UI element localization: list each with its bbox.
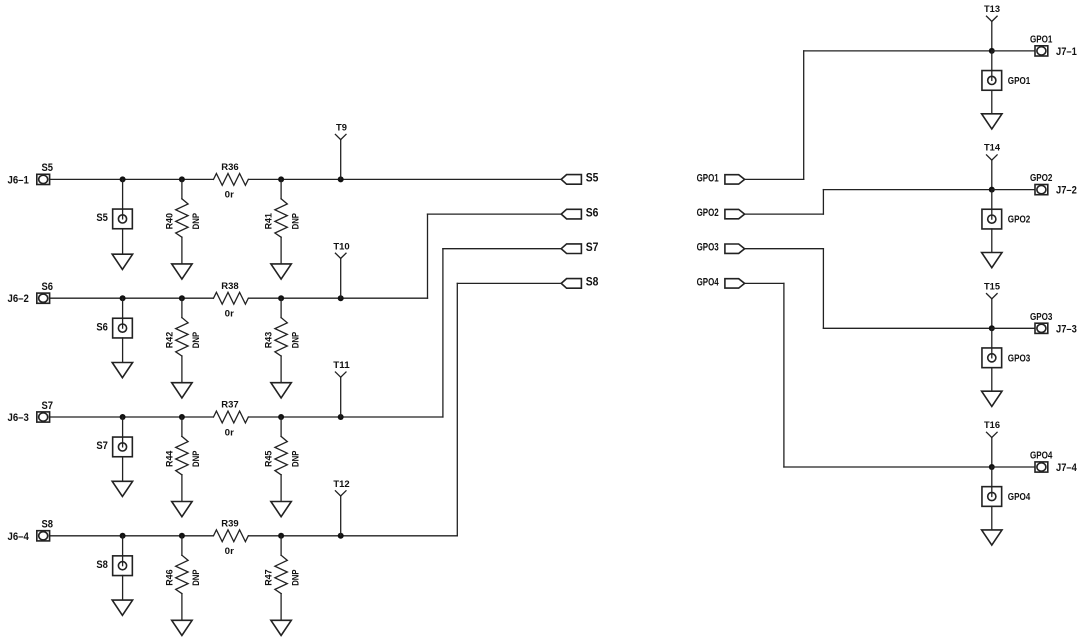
test point label GPO2 bbox=[1008, 215, 1031, 226]
junction node S7 at R45 tap bbox=[278, 414, 284, 420]
svg-text:J6–3: J6–3 bbox=[8, 412, 29, 424]
junction node S6 at T10 tap bbox=[338, 295, 344, 301]
connector J6–1 pin symbol bbox=[37, 174, 50, 184]
wire test point to ground bbox=[991, 368, 993, 392]
DNP label of R46 bbox=[191, 569, 202, 586]
test point label GPO3 bbox=[1008, 353, 1031, 364]
resistor R47 bbox=[275, 555, 287, 593]
junction node S7 at T11 tap bbox=[338, 414, 344, 420]
svg-text:GPO4: GPO4 bbox=[697, 276, 720, 288]
test pin label T13 bbox=[984, 4, 1000, 15]
test point GPO2 bbox=[982, 209, 1002, 229]
connector label J6–1 bbox=[8, 174, 29, 186]
off-page flag S6 bbox=[561, 209, 581, 219]
svg-text:R42: R42 bbox=[165, 332, 176, 348]
wire test point to ground bbox=[991, 90, 993, 114]
test point label S5 bbox=[96, 212, 108, 224]
test point label S6 bbox=[96, 321, 108, 333]
svg-text:J6–2: J6–2 bbox=[8, 293, 29, 305]
wire to test point bbox=[991, 467, 993, 497]
resistor R37 bbox=[214, 411, 249, 423]
wire R40 to ground bbox=[181, 237, 183, 264]
ground below test point GPO4 bbox=[982, 530, 1002, 545]
wire R42 to ground bbox=[181, 356, 183, 383]
resistor R41 bbox=[275, 199, 287, 237]
test pin label T11 bbox=[333, 360, 350, 371]
value label 0r of R38 bbox=[225, 308, 234, 319]
wire net S8 from J6–4 bbox=[50, 535, 214, 537]
test pin T9 bbox=[335, 134, 346, 139]
resistor R46 bbox=[176, 555, 188, 593]
svg-text:T16: T16 bbox=[984, 420, 1000, 431]
wire net S7 to off-page flag bbox=[443, 249, 561, 417]
test point label GPO4 bbox=[1008, 492, 1031, 503]
wire net GPO1 to J7–1 bbox=[745, 51, 992, 180]
resistor label R42 bbox=[165, 332, 176, 348]
resistor R43 bbox=[275, 318, 287, 356]
net label GPO2 at J7–2 bbox=[1030, 173, 1053, 184]
resistor R36 bbox=[214, 174, 249, 186]
svg-text:R46: R46 bbox=[165, 569, 176, 585]
ground below test point S5 bbox=[112, 254, 132, 269]
resistor label R39 bbox=[221, 518, 238, 529]
wire net S7 from J6–3 bbox=[50, 416, 214, 418]
DNP label of R41 bbox=[290, 213, 301, 230]
test pin label T14 bbox=[984, 143, 1001, 154]
junction node S6 at R42 tap bbox=[179, 295, 185, 301]
ground below R45 bbox=[271, 502, 291, 517]
svg-text:S7: S7 bbox=[586, 240, 599, 254]
value label 0r of R37 bbox=[225, 427, 234, 438]
junction node GPO1 bbox=[989, 48, 995, 54]
test pin T14 bbox=[987, 155, 998, 160]
svg-text:DNP: DNP bbox=[191, 213, 202, 230]
junction node S5 at R40 tap bbox=[179, 176, 185, 182]
ground below R41 bbox=[271, 264, 291, 279]
svg-text:S6: S6 bbox=[41, 281, 53, 293]
wire GPO3 to connector J7–3 bbox=[992, 327, 1038, 329]
svg-text:GPO3: GPO3 bbox=[697, 242, 719, 254]
svg-text:S6: S6 bbox=[586, 205, 599, 219]
resistor R45 bbox=[275, 436, 287, 474]
svg-text:S5: S5 bbox=[41, 162, 53, 174]
net label GPO4 at J7–4 bbox=[1030, 450, 1053, 461]
wire to test pin T16 bbox=[991, 438, 993, 468]
connector J6–4 pin symbol bbox=[37, 531, 50, 541]
connector J6–2 pin symbol bbox=[37, 293, 50, 303]
junction node S8 at R46 tap bbox=[179, 533, 185, 539]
resistor label R47 bbox=[264, 569, 275, 585]
test pin T13 bbox=[987, 16, 998, 21]
wire to test point bbox=[122, 417, 124, 447]
wire net S6 from J6–2 bbox=[50, 297, 214, 299]
svg-text:J6–4: J6–4 bbox=[8, 531, 29, 543]
junction node S7 at test point tap bbox=[120, 414, 126, 420]
svg-text:GPO4: GPO4 bbox=[1030, 450, 1053, 461]
test pin label T10 bbox=[333, 241, 349, 252]
DNP label of R43 bbox=[290, 331, 301, 348]
input flag GPO2 bbox=[725, 209, 745, 218]
test point label S8 bbox=[96, 559, 108, 571]
ground below test point S8 bbox=[112, 600, 132, 615]
svg-text:T11: T11 bbox=[333, 360, 350, 371]
svg-text:R40: R40 bbox=[165, 213, 176, 229]
svg-text:R36: R36 bbox=[221, 162, 238, 173]
wire to test point bbox=[991, 51, 993, 81]
svg-text:T14: T14 bbox=[984, 143, 1001, 154]
test point label GPO1 bbox=[1008, 76, 1031, 87]
test point label S7 bbox=[96, 440, 108, 452]
svg-text:S7: S7 bbox=[96, 440, 108, 452]
ground below R44 bbox=[172, 502, 192, 517]
ground below R47 bbox=[271, 620, 291, 635]
wire to test pin T14 bbox=[991, 160, 993, 190]
wire to test pin T11 bbox=[340, 377, 342, 417]
wire R46 to ground bbox=[181, 594, 183, 621]
resistor R44 bbox=[176, 436, 188, 474]
svg-text:GPO3: GPO3 bbox=[1008, 353, 1031, 364]
svg-text:GPO4: GPO4 bbox=[1008, 492, 1031, 503]
wire net S7 to row end bbox=[249, 416, 443, 418]
svg-text:J6–1: J6–1 bbox=[8, 174, 29, 186]
connector label J6–3 bbox=[8, 412, 29, 424]
off-page flag label S5 bbox=[586, 171, 599, 185]
wire to R45 bbox=[280, 417, 282, 436]
wire R41 to ground bbox=[280, 237, 282, 264]
svg-text:S8: S8 bbox=[96, 559, 108, 571]
svg-text:DNP: DNP bbox=[191, 569, 202, 586]
svg-text:T12: T12 bbox=[333, 479, 349, 490]
resistor label R43 bbox=[264, 332, 275, 348]
wire to test pin T12 bbox=[340, 496, 342, 536]
connector label J7–3 bbox=[1056, 323, 1077, 335]
svg-text:R45: R45 bbox=[264, 450, 275, 467]
value label 0r of R36 bbox=[225, 190, 234, 201]
resistor label R46 bbox=[165, 569, 176, 585]
svg-text:R44: R44 bbox=[165, 450, 176, 467]
svg-text:T10: T10 bbox=[333, 241, 349, 252]
off-page flag S8 bbox=[561, 279, 581, 289]
test point S7 bbox=[113, 437, 133, 457]
off-page flag label S8 bbox=[586, 275, 599, 289]
svg-text:S7: S7 bbox=[41, 400, 53, 412]
svg-text:GPO1: GPO1 bbox=[1008, 76, 1031, 87]
junction node S6 at R43 tap bbox=[278, 295, 284, 301]
svg-text:T9: T9 bbox=[336, 122, 347, 133]
connector label J7–1 bbox=[1056, 46, 1077, 58]
wire to R43 bbox=[280, 298, 282, 317]
wire to test pin T15 bbox=[991, 299, 993, 329]
wire to R47 bbox=[280, 536, 282, 555]
junction node S5 at test point tap bbox=[120, 176, 126, 182]
DNP label of R45 bbox=[290, 450, 301, 467]
svg-text:J7–2: J7–2 bbox=[1056, 185, 1077, 197]
junction node S7 at R44 tap bbox=[179, 414, 185, 420]
test point GPO4 bbox=[982, 487, 1002, 507]
DNP label of R47 bbox=[290, 569, 301, 586]
junction node S6 at test point tap bbox=[120, 295, 126, 301]
wire R43 to ground bbox=[280, 356, 282, 383]
DNP label of R44 bbox=[191, 450, 202, 467]
junction node S5 at T9 tap bbox=[338, 176, 344, 182]
svg-text:R39: R39 bbox=[221, 518, 238, 529]
wire test point to ground bbox=[122, 338, 124, 363]
wire to R42 bbox=[181, 298, 183, 317]
svg-text:T13: T13 bbox=[984, 4, 1000, 15]
resistor R38 bbox=[214, 292, 249, 304]
svg-text:DNP: DNP bbox=[290, 569, 301, 586]
svg-text:J7–1: J7–1 bbox=[1056, 46, 1077, 58]
resistor R40 bbox=[176, 199, 188, 237]
svg-text:S8: S8 bbox=[586, 275, 599, 289]
wire to R46 bbox=[181, 536, 183, 555]
wire to test pin T10 bbox=[340, 258, 342, 298]
test pin label T9 bbox=[336, 122, 347, 133]
junction node S5 at R41 tap bbox=[278, 176, 284, 182]
svg-text:S6: S6 bbox=[96, 321, 108, 333]
wire to test point bbox=[122, 179, 124, 219]
resistor label R44 bbox=[165, 450, 176, 467]
svg-text:R38: R38 bbox=[221, 281, 239, 292]
wire to test point bbox=[991, 190, 993, 220]
net label S7 at J6–3 bbox=[41, 400, 53, 412]
wire R47 to ground bbox=[280, 594, 282, 621]
DNP label of R40 bbox=[191, 213, 202, 230]
svg-text:0r: 0r bbox=[225, 546, 234, 557]
net label GPO3 at J7–3 bbox=[1030, 312, 1053, 323]
net label GPO1 at J7–1 bbox=[1030, 34, 1053, 45]
junction node GPO3 bbox=[989, 325, 995, 331]
wire to test point bbox=[991, 328, 993, 358]
svg-text:T15: T15 bbox=[984, 281, 1001, 292]
input flag label GPO2 bbox=[697, 207, 719, 219]
off-page flag label S6 bbox=[586, 205, 599, 219]
wire to R41 bbox=[280, 179, 282, 198]
svg-text:R41: R41 bbox=[264, 212, 275, 229]
test pin label T12 bbox=[333, 479, 349, 490]
svg-text:J7–3: J7–3 bbox=[1056, 323, 1077, 335]
wire net S5 to row end bbox=[249, 178, 561, 180]
wire to test pin T9 bbox=[340, 140, 342, 180]
junction node GPO4 bbox=[989, 464, 995, 470]
wire GPO4 to connector J7–4 bbox=[992, 466, 1038, 468]
wire net S5 from J6–1 bbox=[50, 178, 214, 180]
resistor label R38 bbox=[221, 281, 239, 292]
connector label J6–2 bbox=[8, 293, 29, 305]
wire net S8 to row end bbox=[249, 535, 458, 537]
ground below R42 bbox=[172, 383, 192, 398]
svg-text:DNP: DNP bbox=[290, 450, 301, 467]
ground below R40 bbox=[172, 264, 192, 279]
resistor label R45 bbox=[264, 450, 275, 467]
svg-text:S5: S5 bbox=[96, 212, 108, 224]
wire R45 to ground bbox=[280, 475, 282, 502]
svg-text:R37: R37 bbox=[221, 400, 238, 411]
off-page flag S5 bbox=[561, 175, 581, 185]
resistor label R41 bbox=[264, 212, 275, 229]
svg-text:GPO3: GPO3 bbox=[1030, 312, 1053, 323]
svg-text:GPO2: GPO2 bbox=[697, 207, 719, 219]
ground below test point GPO1 bbox=[982, 114, 1002, 129]
test point S6 bbox=[113, 318, 133, 338]
wire net S6 to row end bbox=[249, 297, 428, 299]
test point S8 bbox=[113, 556, 133, 576]
connector J7–3 pin symbol bbox=[1035, 323, 1048, 333]
net label S6 at J6–2 bbox=[41, 281, 53, 293]
wire test point to ground bbox=[991, 506, 993, 530]
test point GPO3 bbox=[982, 348, 1002, 368]
svg-text:R43: R43 bbox=[264, 332, 275, 348]
wire to test point bbox=[122, 298, 124, 328]
test pin T10 bbox=[335, 253, 346, 258]
wire to R40 bbox=[181, 179, 183, 198]
svg-text:DNP: DNP bbox=[290, 213, 301, 230]
resistor label R37 bbox=[221, 400, 238, 411]
svg-text:S5: S5 bbox=[586, 171, 599, 185]
input flag GPO4 bbox=[725, 279, 745, 288]
ground below test point GPO2 bbox=[982, 253, 1002, 268]
svg-text:GPO2: GPO2 bbox=[1030, 173, 1053, 184]
wire to test point bbox=[122, 536, 124, 566]
wire net S8 to off-page flag bbox=[457, 283, 561, 535]
junction node S8 at T12 tap bbox=[338, 533, 344, 539]
svg-text:DNP: DNP bbox=[290, 331, 301, 348]
svg-text:GPO1: GPO1 bbox=[697, 172, 719, 184]
net label S8 at J6–4 bbox=[41, 519, 53, 531]
connector label J7–2 bbox=[1056, 185, 1077, 197]
wire net GPO3 to J7–3 bbox=[745, 249, 992, 329]
test point S5 bbox=[113, 209, 133, 229]
input flag GPO1 bbox=[725, 175, 745, 184]
connector label J6–4 bbox=[8, 531, 29, 543]
junction node S8 at test point tap bbox=[120, 533, 126, 539]
input flag label GPO3 bbox=[697, 242, 719, 254]
wire net S6 to off-page flag bbox=[428, 214, 562, 298]
connector J6–3 pin symbol bbox=[37, 412, 50, 422]
test point GPO1 bbox=[982, 71, 1002, 91]
input flag label GPO1 bbox=[697, 172, 719, 184]
svg-text:0r: 0r bbox=[225, 190, 234, 201]
connector J7–4 pin symbol bbox=[1035, 462, 1048, 472]
svg-text:GPO1: GPO1 bbox=[1030, 34, 1053, 45]
wire test point to ground bbox=[991, 229, 993, 253]
ground below test point S7 bbox=[112, 481, 132, 496]
resistor R42 bbox=[176, 318, 188, 356]
test pin T11 bbox=[335, 372, 346, 377]
input flag GPO3 bbox=[725, 244, 745, 253]
ground below test point S6 bbox=[112, 363, 132, 378]
off-page flag label S7 bbox=[586, 240, 599, 254]
resistor label R40 bbox=[165, 213, 176, 229]
wire test point to ground bbox=[122, 457, 124, 482]
wire R44 to ground bbox=[181, 475, 183, 502]
connector label J7–4 bbox=[1056, 462, 1077, 474]
junction node S8 at R47 tap bbox=[278, 533, 284, 539]
svg-text:DNP: DNP bbox=[191, 331, 202, 348]
test pin T15 bbox=[987, 294, 998, 299]
input flag label GPO4 bbox=[697, 276, 720, 288]
svg-text:S8: S8 bbox=[41, 519, 53, 531]
wire GPO1 to connector J7–1 bbox=[992, 50, 1038, 52]
wire test point to ground bbox=[122, 576, 124, 601]
svg-text:0r: 0r bbox=[225, 427, 234, 438]
DNP label of R42 bbox=[191, 331, 202, 348]
wire net GPO2 to J7–2 bbox=[745, 190, 992, 215]
net label S5 at J6–1 bbox=[41, 162, 53, 174]
wire GPO2 to connector J7–2 bbox=[992, 189, 1038, 191]
svg-text:R47: R47 bbox=[264, 569, 275, 585]
wire test point to ground bbox=[122, 229, 124, 254]
svg-text:J7–4: J7–4 bbox=[1056, 462, 1077, 474]
value label 0r of R39 bbox=[225, 546, 234, 557]
svg-text:GPO2: GPO2 bbox=[1008, 215, 1031, 226]
test pin T16 bbox=[987, 432, 998, 437]
wire to R44 bbox=[181, 417, 183, 436]
wire to test pin T13 bbox=[991, 21, 993, 51]
resistor R39 bbox=[214, 530, 249, 542]
ground below R43 bbox=[271, 383, 291, 398]
off-page flag S7 bbox=[561, 244, 581, 254]
resistor label R36 bbox=[221, 162, 238, 173]
test pin T12 bbox=[335, 491, 346, 496]
ground below test point GPO3 bbox=[982, 391, 1002, 406]
svg-text:0r: 0r bbox=[225, 308, 234, 319]
connector J7–2 pin symbol bbox=[1035, 185, 1048, 195]
connector J7–1 pin symbol bbox=[1035, 46, 1048, 56]
junction node GPO2 bbox=[989, 187, 995, 193]
test pin label T15 bbox=[984, 281, 1001, 292]
wire net GPO4 to J7–4 bbox=[745, 283, 992, 467]
svg-text:DNP: DNP bbox=[191, 450, 202, 467]
ground below R46 bbox=[172, 620, 192, 635]
test pin label T16 bbox=[984, 420, 1000, 431]
